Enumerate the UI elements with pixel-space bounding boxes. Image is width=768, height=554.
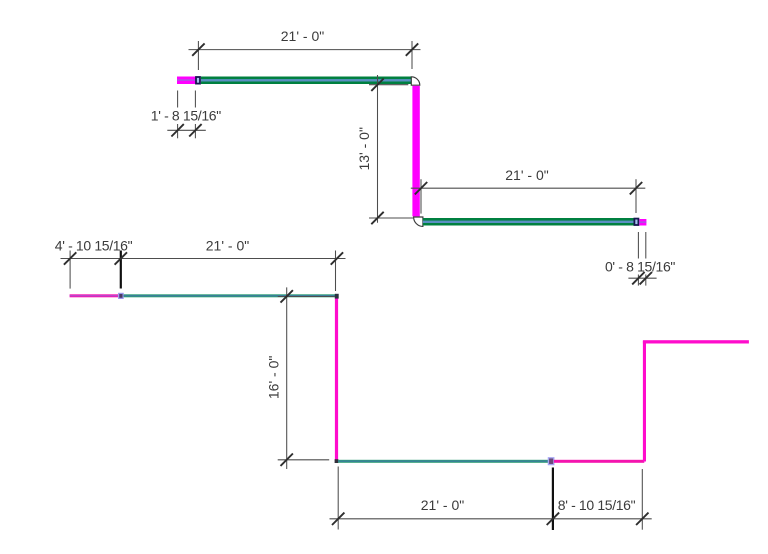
D2 tick right [189,124,201,136]
svg-text:21' - 0": 21' - 0" [421,497,464,513]
dimension D4: 21'-0" (middle right) [411,179,646,213]
svg-text:21' - 0": 21' - 0" [505,167,548,183]
dimension D3: 13'-0" (vertical) [369,75,413,223]
D9 tick right [636,513,648,525]
dimension D9/D10: 21'-0" and 8'-10 15/16" (bottom, shared line) [330,467,652,530]
D4 dim line [411,187,646,189]
D3 extension line top [369,84,408,86]
D3 dim line [377,75,379,223]
duct run A (top horizontal, green with centerline) [201,77,411,85]
D4 tick right [630,182,642,194]
D6 thick middle extension line [120,251,122,289]
connector box 1 [196,77,200,84]
D2 extension line left [177,91,179,139]
D8 dim line [286,287,288,469]
D9 dim line [330,518,652,520]
duct end cap C-right (magenta) [639,219,646,226]
D1 extension line left [197,41,199,70]
placeholder run E (vertical magenta) [335,297,338,461]
svg-text:16' - 0": 16' - 0" [265,356,281,399]
connector box 3 [119,293,123,298]
D4 tick left [415,182,427,194]
D3 tick top [371,79,383,91]
svg-text:0' - 8 15/16": 0' - 8 15/16" [605,258,675,274]
connector box 4 [548,458,553,465]
connector box 2 [634,219,638,225]
placeholder run D magenta segment [70,294,118,297]
D6 tick right [331,252,343,264]
duct run B (vertical magenta) [412,86,419,217]
D8 tick top [281,290,293,302]
D6 tick left [64,252,76,264]
D6 extension line right [335,251,337,292]
D4 extension line right [635,179,637,213]
D5 tick left [632,272,644,284]
svg-text:21' - 0": 21' - 0" [281,28,324,44]
corner node E/F [335,459,339,463]
placeholder run G (vertical magenta right) [643,341,646,462]
D9 thick middle extension line [552,468,554,531]
duct run C (lower-right horizontal, green with centerline) [423,218,634,226]
D1 tick right [406,43,418,55]
D8 tick bottom [281,454,293,466]
placeholder run D centerline tint [70,295,118,296]
D9 extension line left [337,467,339,530]
D1 dim line [189,49,421,51]
D2 tick left [171,124,183,136]
svg-text:4' - 10 15/16": 4' - 10 15/16" [55,237,133,253]
D6 tick middle [115,252,127,264]
D8 extension line top [278,296,335,298]
dimension D1: 21'-0" (top) [189,41,421,70]
D5 dim line [628,277,656,279]
D2 dim line [167,129,206,131]
D9 extension line right [641,469,643,530]
D5 extension line right [645,232,647,286]
dimension D6/D7: 4'-10 15/16" and 21'-0" (left, shared line) [61,251,346,292]
D9 tick middle [547,513,559,525]
D3 extension line bottom [369,217,413,219]
elbow fitting 1 (top corner) [411,77,420,85]
placeholder run F magenta segment [554,460,645,463]
D6 extension line left [69,251,71,289]
dimension D8: 16'-0" (vertical) [278,287,335,469]
svg-text:1' - 8 15/16": 1' - 8 15/16" [151,108,221,124]
svg-text:21' - 0": 21' - 0" [206,237,249,253]
D2 text mask [148,108,223,125]
corner node D/E [335,294,339,299]
svg-text:8' - 10 15/16": 8' - 10 15/16" [558,497,636,513]
D2 extension line right [194,91,196,139]
dimension D5: 0'-8 15/16" [638,232,645,286]
D5 extension line left [637,232,639,286]
D6 dim line [61,258,346,260]
D3 tick bottom [371,212,383,224]
dimension D2: 1'-8 15/16" [178,91,196,139]
placeholder run D teal segment [124,294,337,297]
duct end cap A-left (magenta) [177,77,196,85]
placeholder run F teal segment [338,460,550,463]
svg-text:13' - 0": 13' - 0" [356,127,372,170]
D8 extension line bottom [278,459,330,461]
D1 tick left [192,43,204,55]
placeholder run H (top-right horizontal magenta) [643,340,749,343]
elbow fitting 2 (lower corner) [414,217,423,226]
D4 extension line left [420,179,422,213]
D9 tick left [332,513,344,525]
D5 text mask [602,259,678,275]
D5 tick right [640,272,652,284]
D1 extension line right [411,41,413,69]
